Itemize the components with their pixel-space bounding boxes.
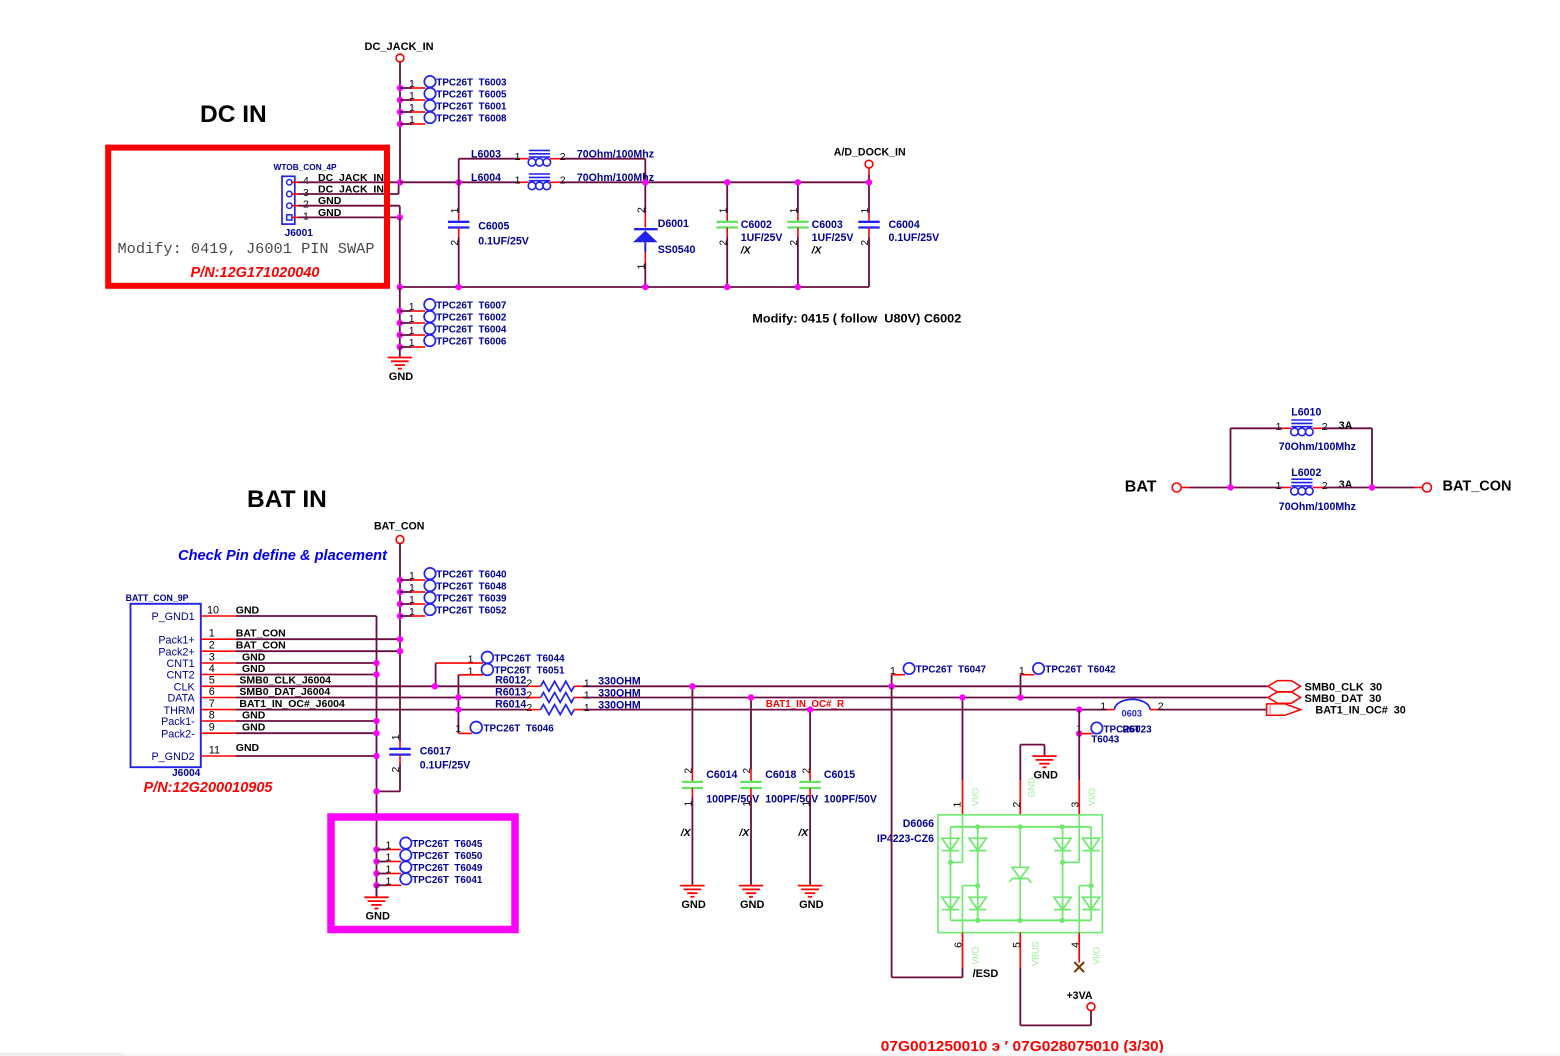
svg-text:2: 2 (209, 640, 215, 652)
test point T6047 (890, 663, 987, 687)
red callout box (108, 148, 387, 286)
D6066 body (938, 815, 1102, 933)
off-page BAT1_IN_OC# (1267, 704, 1406, 717)
test point T6046 (455, 722, 554, 735)
svg-text:5: 5 (209, 675, 215, 687)
svg-text:DC_JACK_IN: DC_JACK_IN (365, 41, 434, 53)
svg-text:330OHM: 330OHM (598, 700, 641, 712)
svg-text:1: 1 (409, 606, 415, 618)
svg-text:2: 2 (801, 768, 812, 774)
junction T6051 dat (455, 694, 461, 700)
capacitor C6004 (858, 182, 939, 287)
wire DC_JACK_IN vertical (399, 62, 401, 182)
svg-text:2: 2 (860, 240, 871, 246)
svg-text:2: 2 (742, 768, 753, 774)
ground symbol pin2 (1032, 745, 1058, 782)
svg-text:2: 2 (1011, 801, 1023, 807)
svg-text:1: 1 (409, 301, 415, 313)
junction bottom C6002 (724, 284, 730, 290)
svg-text:1: 1 (409, 594, 415, 606)
wire gnd vertical (399, 217, 401, 287)
svg-text:VI/O: VI/O (970, 947, 980, 965)
D6066 pin names top (971, 777, 1098, 806)
ground symbol BAT IN (364, 885, 390, 922)
junction T6044 (432, 683, 438, 689)
svg-text:1: 1 (409, 102, 415, 114)
svg-text:1: 1 (303, 210, 309, 222)
svg-text:TPC26T T6007: TPC26T T6007 (436, 301, 507, 312)
svg-text:SS0540: SS0540 (658, 244, 696, 256)
junction gnd pins (397, 214, 403, 220)
note check pin (178, 547, 388, 564)
D6066 pin numbers bottom (953, 942, 1082, 948)
doc number (881, 1038, 1164, 1055)
svg-text:Pack2-: Pack2- (161, 728, 195, 740)
svg-text:DATA: DATA (167, 693, 195, 705)
svg-text:1: 1 (635, 264, 647, 270)
svg-text:SMB0_DAT_J6004: SMB0_DAT_J6004 (239, 686, 330, 698)
D6066 pin4 elbow (1079, 886, 1091, 933)
junction DC_JACK main (397, 179, 403, 185)
wire P_GND1 (236, 616, 377, 897)
svg-text:C6004: C6004 (889, 219, 920, 231)
net label BAT1_IN_OC#_R (766, 699, 844, 710)
capacitor C6014 (680, 686, 760, 911)
junction C6014 (689, 683, 695, 689)
svg-text:TPC26T T6050: TPC26T T6050 (412, 851, 483, 862)
D6066 pin6 elbow (963, 886, 978, 933)
junction BAT right (1369, 484, 1375, 490)
wire CNT2 (236, 674, 377, 676)
svg-text:GND: GND (242, 663, 266, 675)
test point T6041 (373, 873, 483, 888)
junction OC# D6066 (1076, 706, 1082, 712)
svg-text:1: 1 (801, 801, 812, 807)
junction C6018 (748, 694, 754, 700)
svg-text:1: 1 (515, 151, 521, 163)
wire bottom rail (400, 286, 869, 288)
svg-text:R6014: R6014 (495, 699, 526, 711)
pin number 1 (303, 210, 309, 222)
component D6066 refdes (877, 818, 934, 845)
junction gnd rail p3 (373, 660, 379, 666)
wire pin2 down (298, 206, 400, 218)
test point T6051 (458, 664, 565, 734)
wire gnd stub down (399, 287, 401, 347)
svg-text:BAT: BAT (1125, 479, 1157, 496)
connector J6004 pins and labels (151, 604, 345, 763)
D6066 diode column 3 (1054, 827, 1071, 921)
D6066 bottom bus (951, 918, 1092, 923)
svg-text:GND: GND (242, 709, 266, 721)
junction A/D_DOCK (866, 179, 872, 185)
svg-text:SMB0_CLK_J6004: SMB0_CLK_J6004 (239, 675, 331, 687)
resistor R6012 (495, 675, 641, 692)
pin number 4 (303, 175, 309, 187)
D6066 pin numbers top (952, 801, 1082, 807)
capacitor C6002 (717, 182, 783, 287)
note modify 0415 (752, 312, 961, 326)
test point T6049 (373, 861, 483, 876)
svg-text:GND: GND (681, 899, 706, 911)
svg-text:1: 1 (409, 337, 415, 349)
svg-text:L6004: L6004 (471, 172, 501, 184)
svg-text:TPC26T T6041: TPC26T T6041 (412, 875, 483, 886)
svg-text:THRM: THRM (164, 705, 195, 717)
svg-text:TPC26T T6008: TPC26T T6008 (436, 114, 507, 125)
svg-text:C6003: C6003 (812, 219, 843, 231)
svg-text:A/D_DOCK_IN: A/D_DOCK_IN (834, 147, 906, 159)
svg-text:C6018: C6018 (765, 769, 796, 781)
svg-text:1: 1 (468, 654, 474, 666)
svg-text:GND: GND (799, 899, 824, 911)
svg-text:2: 2 (450, 240, 461, 246)
svg-text:1: 1 (409, 570, 415, 582)
net label GND pin2 (318, 195, 342, 207)
svg-text:GND: GND (242, 651, 266, 663)
svg-text:R6012: R6012 (495, 675, 526, 687)
bottom edge strip (0, 1053, 1560, 1056)
wire D6066 pin1 (962, 698, 964, 815)
svg-text:2: 2 (789, 240, 800, 246)
svg-text:P/N:12G200010905: P/N:12G200010905 (144, 780, 274, 796)
inductor L6003 (471, 149, 654, 167)
test point T6006 (397, 335, 507, 350)
svg-text:L6010: L6010 (1291, 407, 1321, 419)
svg-text:IP4223-CZ6: IP4223-CZ6 (877, 833, 934, 845)
svg-text:WTOB_CON_4P: WTOB_CON_4P (274, 162, 337, 172)
svg-text:J6004: J6004 (172, 768, 201, 779)
net label DC_JACK_IN pin4 (318, 172, 384, 184)
junction gnd rail p4 (373, 671, 379, 677)
svg-text:Modify: 0415 ( follow U80V) C: Modify: 0415 ( follow U80V) C6002 (752, 312, 961, 326)
svg-text:2: 2 (1158, 700, 1164, 712)
svg-text:GND: GND (389, 371, 414, 383)
svg-text:P/N:12G171020040: P/N:12G171020040 (191, 265, 320, 281)
junction gnd rail p11 (373, 753, 379, 759)
magenta callout box (331, 817, 515, 930)
svg-text:GND: GND (365, 911, 390, 923)
svg-text:1: 1 (386, 852, 392, 864)
wire D6066 pin2 gnd (1020, 745, 1044, 815)
svg-text:TPC26T T6045: TPC26T T6045 (412, 839, 483, 850)
svg-text:BAT_CON: BAT_CON (236, 628, 286, 640)
svg-text:R6023: R6023 (1123, 724, 1153, 735)
pin number 3 (303, 187, 309, 199)
svg-text:TPC26T T6044: TPC26T T6044 (494, 654, 565, 665)
svg-text:BAT1_IN_OC# 30: BAT1_IN_OC# 30 (1315, 705, 1405, 717)
svg-text:D6066: D6066 (903, 818, 934, 830)
svg-text:VI/O: VI/O (1091, 947, 1101, 965)
junction T6051 oc (455, 706, 461, 712)
svg-text:CNT1: CNT1 (166, 658, 194, 670)
test point T6008 (397, 112, 507, 127)
svg-text:R6013: R6013 (495, 687, 526, 699)
svg-text:3A: 3A (1339, 479, 1353, 491)
wire Pack1- (236, 720, 377, 722)
test point T6044 (436, 652, 565, 687)
svg-text:VBUS: VBUS (1030, 941, 1040, 966)
wire Pack2- (236, 732, 377, 734)
D6066 diode column 1 (942, 827, 959, 921)
test point T6040 (397, 568, 507, 583)
test point T6052 (397, 604, 507, 619)
svg-text:330OHM: 330OHM (598, 688, 641, 700)
wire pin4 to main rail (298, 181, 400, 183)
svg-text:1: 1 (1276, 421, 1282, 433)
svg-text:GND: GND (740, 899, 765, 911)
no-connect X pin4 (1074, 933, 1084, 973)
svg-text:BAT_CON: BAT_CON (1443, 479, 1512, 495)
test point T6003 (397, 76, 507, 91)
junction T6042 (1017, 694, 1023, 700)
svg-text:3A: 3A (1339, 420, 1353, 432)
wire P_GND2 (236, 755, 377, 757)
svg-text:TPC26T T6003: TPC26T T6003 (436, 78, 507, 89)
wire pin1 gnd (298, 216, 400, 218)
svg-text:2: 2 (1322, 421, 1328, 433)
svg-text:4: 4 (303, 175, 309, 187)
junction D6001 top (642, 179, 648, 185)
svg-text:1: 1 (789, 207, 800, 213)
svg-text:/X: /X (740, 244, 752, 256)
svg-text:1: 1 (409, 325, 415, 337)
junction C6003 top (795, 179, 801, 185)
net label /ESD (973, 968, 999, 980)
test point T6001 (397, 100, 507, 115)
svg-text:1: 1 (515, 175, 521, 187)
svg-text:TPC26T T6046: TPC26T T6046 (484, 724, 555, 735)
svg-text:2: 2 (303, 199, 309, 211)
svg-text:4: 4 (209, 663, 215, 675)
wire pin3 up to rail (298, 181, 399, 194)
junction gnd rail p8 (373, 718, 379, 724)
svg-text:2: 2 (526, 702, 532, 714)
svg-text:BAT1_IN_OC#_J6004: BAT1_IN_OC#_J6004 (239, 698, 345, 710)
wire Pack1+ (236, 638, 400, 640)
svg-text:T6043: T6043 (1091, 734, 1120, 745)
svg-text:1: 1 (386, 864, 392, 876)
svg-text:CLK: CLK (174, 682, 196, 694)
svg-text:/X: /X (811, 244, 823, 256)
svg-text:BATT_CON_9P: BATT_CON_9P (126, 593, 189, 603)
connector J6004 BATT_CON_9P (126, 593, 201, 779)
svg-text:+3VA: +3VA (1067, 990, 1093, 1002)
svg-text:2: 2 (635, 207, 647, 213)
test point T6043 (1076, 722, 1152, 745)
inductor L6010 (1231, 407, 1373, 454)
svg-text:1: 1 (584, 678, 590, 690)
svg-text:1: 1 (742, 801, 753, 807)
svg-text:TPC26T T6001: TPC26T T6001 (436, 102, 507, 113)
svg-text:1: 1 (584, 702, 590, 714)
svg-text:VI/O: VI/O (1087, 788, 1097, 806)
svg-text:1: 1 (386, 875, 392, 887)
test point T6045 (373, 837, 483, 852)
svg-text:1: 1 (409, 90, 415, 102)
port BAT_CON top (374, 521, 424, 544)
svg-text:2: 2 (526, 678, 532, 690)
svg-text:CNT2: CNT2 (166, 670, 194, 682)
svg-text:7: 7 (209, 698, 215, 710)
resistor R6014 (495, 699, 641, 715)
net label GND pin1 (318, 207, 342, 219)
D6066 diode column 4 (1083, 827, 1100, 921)
svg-text:DC IN: DC IN (200, 101, 267, 128)
svg-text:3: 3 (303, 187, 309, 199)
svg-text:2: 2 (684, 768, 695, 774)
svg-text:6: 6 (209, 686, 215, 698)
title DC IN (200, 101, 267, 128)
svg-text:TPC26T T6048: TPC26T T6048 (436, 582, 507, 593)
svg-text:TPC26T T6040: TPC26T T6040 (436, 570, 507, 581)
svg-text:TPC26T T6042: TPC26T T6042 (1045, 665, 1116, 676)
svg-text:1: 1 (390, 734, 402, 740)
svg-text:/X: /X (680, 827, 692, 839)
junction bottom C6005 (456, 284, 462, 290)
svg-text:C6017: C6017 (420, 745, 451, 757)
svg-text:70Ohm/100Mhz: 70Ohm/100Mhz (1279, 441, 1356, 453)
D6066 top bus (951, 824, 1092, 829)
svg-text:70Ohm/100Mhz: 70Ohm/100Mhz (577, 149, 654, 161)
junction C6017 gnd (373, 788, 379, 794)
svg-text:1UF/25V: 1UF/25V (812, 232, 854, 244)
port BAT_CON right (1423, 479, 1512, 495)
inductor L6004 (471, 172, 654, 190)
svg-text:1: 1 (468, 666, 474, 678)
svg-text:Pack1-: Pack1- (161, 716, 195, 728)
junction bottom D6001 (642, 284, 648, 290)
D6066 pin names bottom (970, 941, 1101, 966)
svg-text:330OHM: 330OHM (598, 675, 641, 687)
test point T6039 (397, 592, 507, 607)
svg-text:11: 11 (209, 744, 220, 756)
svg-text:BAT_CON: BAT_CON (374, 521, 424, 533)
svg-text:SMB0_CLK 30: SMB0_CLK 30 (1305, 681, 1383, 693)
junction BAT_CON p1 (397, 636, 403, 642)
inductor L6002 (1276, 467, 1356, 513)
svg-text:8: 8 (209, 709, 215, 721)
svg-text:J6001: J6001 (285, 228, 314, 239)
svg-text:1: 1 (860, 207, 871, 213)
svg-text:07G001250010 э ′ 07G028075010: 07G001250010 э ′ 07G028075010 (3/30) (881, 1038, 1164, 1055)
svg-text:GND: GND (236, 742, 260, 754)
svg-text:TPC26T T6005: TPC26T T6005 (436, 90, 507, 101)
capacitor C6017 (377, 734, 471, 791)
svg-text:TPC26T T6039: TPC26T T6039 (436, 594, 507, 605)
svg-text:TPC26T T6004: TPC26T T6004 (436, 325, 507, 336)
pin number 2 (303, 199, 309, 211)
wire L6010 risers (1231, 428, 1373, 487)
svg-text:70Ohm/100Mhz: 70Ohm/100Mhz (1279, 501, 1356, 513)
svg-text:SMB0_DAT 30: SMB0_DAT 30 (1305, 693, 1382, 705)
svg-text:C6005: C6005 (478, 221, 509, 233)
svg-text:1: 1 (952, 802, 964, 808)
test point T6005 (397, 88, 507, 103)
D6066 pin1 elbow (951, 815, 963, 863)
diode D6001 SS0540 (633, 182, 696, 287)
svg-text:BAT1_IN_OC#_R: BAT1_IN_OC#_R (766, 699, 844, 710)
svg-text:9: 9 (209, 722, 215, 734)
port +3VA (1067, 990, 1095, 1011)
capacitor C6018 (738, 698, 818, 912)
svg-text:1: 1 (409, 78, 415, 90)
wire /ESD (892, 686, 963, 977)
svg-text:/ESD: /ESD (973, 968, 999, 980)
junction rail C6005 (456, 179, 462, 185)
svg-text:/X: /X (797, 827, 809, 839)
wire BAT1_IN_OC# bus (236, 709, 1267, 711)
svg-text:/X: /X (738, 827, 750, 839)
svg-text:1: 1 (1100, 700, 1106, 712)
svg-text:1: 1 (584, 690, 590, 702)
svg-text:Pack2+: Pack2+ (158, 646, 194, 658)
connector J6001 WTOB_CON_4P (274, 162, 337, 239)
svg-text:100PF/50V: 100PF/50V (824, 793, 877, 805)
svg-text:1: 1 (684, 801, 695, 807)
capacitor C6015 (797, 710, 877, 911)
svg-text:Check Pin define & placement: Check Pin define & placement (178, 547, 388, 564)
svg-text:GND: GND (1033, 770, 1058, 782)
wire +3VA (1020, 933, 1091, 1026)
svg-text:TPC26T T6049: TPC26T T6049 (412, 863, 483, 874)
D6066 diode column 2 (969, 827, 986, 921)
junction bottom C6003 (795, 284, 801, 290)
junction bottom gnd (397, 284, 403, 290)
test point T6002 (397, 311, 507, 326)
svg-text:TPC26T T6006: TPC26T T6006 (436, 337, 507, 348)
port DC_JACK_IN (365, 41, 434, 62)
svg-text:1: 1 (409, 114, 415, 126)
note P/N 12G200010905 (144, 780, 274, 796)
capacitor C6005 (448, 182, 529, 287)
svg-text:10: 10 (207, 604, 219, 616)
svg-text:P_GND1: P_GND1 (151, 611, 194, 623)
svg-text:1: 1 (450, 207, 461, 213)
D6066 zener diode (1010, 827, 1032, 921)
wire BAT_CON vertical (399, 543, 401, 741)
svg-text:VI/O: VI/O (971, 788, 981, 806)
svg-text:L6003: L6003 (471, 149, 501, 161)
port A/D_DOCK_IN (834, 147, 906, 183)
svg-text:BAT_CON: BAT_CON (236, 640, 286, 652)
note P/N 12G171020040 (191, 265, 320, 281)
wire L6003 branch (459, 159, 646, 183)
ground symbol DC IN (388, 347, 414, 383)
svg-text:L6002: L6002 (1291, 467, 1321, 479)
svg-text:0.1UF/25V: 0.1UF/25V (420, 759, 471, 771)
svg-text:C6015: C6015 (824, 769, 855, 781)
off-page SMB0_CLK (1268, 681, 1382, 694)
svg-text:2: 2 (718, 240, 729, 246)
test point T6007 (397, 299, 507, 314)
svg-text:1: 1 (209, 628, 215, 640)
junction pin1 dat (959, 694, 965, 700)
junction C6015 (807, 706, 813, 712)
svg-text:TPC26T T6002: TPC26T T6002 (436, 313, 507, 324)
test point T6004 (397, 323, 507, 338)
svg-text:1UF/25V: 1UF/25V (741, 232, 783, 244)
svg-text:2: 2 (390, 767, 402, 773)
svg-text:2: 2 (560, 175, 566, 187)
test point T6042 (1019, 663, 1116, 698)
junction T6047 esd (888, 683, 894, 689)
title BAT IN (247, 486, 327, 513)
svg-text:1: 1 (1276, 480, 1282, 492)
wire Pack2+ (236, 650, 400, 652)
svg-text:GND: GND (1027, 777, 1037, 798)
svg-text:1: 1 (386, 840, 392, 852)
